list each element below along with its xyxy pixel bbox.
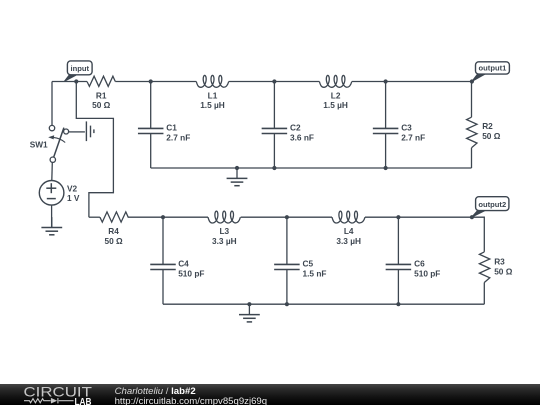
svg-text:50 Ω: 50 Ω (105, 236, 124, 246)
svg-text:3.3 µH: 3.3 µH (336, 236, 361, 246)
svg-text:C3: C3 (401, 123, 412, 133)
svg-text:510 pF: 510 pF (414, 268, 440, 278)
svg-text:output1: output1 (479, 64, 508, 73)
svg-text:L1: L1 (208, 90, 218, 100)
svg-text:510 pF: 510 pF (178, 268, 204, 278)
svg-text:http://circuitlab.com/cmpv85q9: http://circuitlab.com/cmpv85q9zj69q (115, 396, 268, 405)
svg-text:1.5 nF: 1.5 nF (303, 268, 327, 278)
svg-text:C2: C2 (290, 123, 301, 133)
svg-text:50 Ω: 50 Ω (494, 266, 513, 276)
svg-text:L2: L2 (331, 90, 341, 100)
svg-text:input: input (70, 64, 89, 73)
svg-text:1 V: 1 V (67, 193, 80, 203)
svg-text:L3: L3 (219, 226, 229, 236)
svg-text:3.3 µH: 3.3 µH (212, 236, 237, 246)
svg-text:output2: output2 (478, 200, 506, 209)
svg-text:SW1: SW1 (30, 139, 48, 149)
svg-text:1.5 µH: 1.5 µH (323, 100, 348, 110)
svg-text:C5: C5 (303, 259, 314, 269)
svg-text:50 Ω: 50 Ω (482, 131, 501, 141)
svg-text:L4: L4 (344, 226, 354, 236)
svg-text:R1: R1 (96, 90, 107, 100)
svg-text:C4: C4 (178, 259, 189, 269)
svg-text:C6: C6 (414, 259, 425, 269)
svg-text:3.6 nF: 3.6 nF (290, 133, 314, 143)
svg-text:R2: R2 (482, 121, 493, 131)
svg-text:V2: V2 (67, 183, 78, 193)
svg-text:50 Ω: 50 Ω (92, 100, 111, 110)
svg-text:R4: R4 (108, 226, 119, 236)
svg-text:1.5 µH: 1.5 µH (200, 100, 225, 110)
svg-text:2.7 nF: 2.7 nF (166, 133, 190, 143)
svg-text:LAB: LAB (75, 396, 92, 405)
svg-text:C1: C1 (166, 123, 177, 133)
svg-text:2.7 nF: 2.7 nF (401, 133, 425, 143)
svg-text:R3: R3 (494, 257, 505, 267)
